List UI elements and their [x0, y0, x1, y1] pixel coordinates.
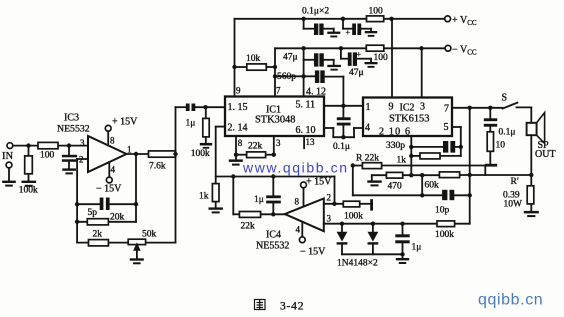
- svg-text:47μ: 47μ: [283, 53, 298, 63]
- svg-text:IC4: IC4: [266, 230, 281, 241]
- svg-text:− 15V: − 15V: [300, 247, 326, 258]
- svg-text:10p: 10p: [435, 206, 450, 216]
- svg-text:IC2: IC2: [400, 103, 415, 114]
- svg-text:2: 2: [327, 193, 332, 203]
- svg-text:100k: 100k: [191, 149, 210, 159]
- svg-text:STK6153: STK6153: [389, 114, 429, 125]
- svg-text:22k: 22k: [248, 142, 263, 152]
- svg-text:470: 470: [388, 182, 403, 192]
- svg-text:1. 15: 1. 15: [228, 102, 248, 113]
- svg-text:3: 3: [420, 102, 425, 113]
- svg-text:1N4148×2: 1N4148×2: [337, 259, 378, 269]
- svg-text:3-42: 3-42: [280, 301, 304, 313]
- svg-text:100: 100: [369, 7, 384, 17]
- svg-text:100k: 100k: [344, 212, 363, 222]
- svg-text:0.1μ: 0.1μ: [499, 128, 516, 138]
- svg-text:0.1μ: 0.1μ: [333, 142, 350, 152]
- svg-text:NE5532: NE5532: [256, 241, 289, 252]
- svg-text:3: 3: [276, 138, 281, 148]
- svg-text:0.1μ×2: 0.1μ×2: [302, 7, 329, 17]
- svg-text:qqibb.cn: qqibb.cn: [478, 292, 543, 309]
- svg-text:100: 100: [40, 151, 55, 161]
- svg-text:1μ: 1μ: [254, 195, 264, 205]
- svg-text:NE5532: NE5532: [57, 124, 90, 135]
- svg-text:10k: 10k: [246, 54, 261, 64]
- svg-text:4. 12: 4. 12: [306, 87, 326, 98]
- svg-text:60k: 60k: [425, 181, 440, 191]
- svg-text:47μ: 47μ: [349, 68, 364, 78]
- svg-text:2. 14: 2. 14: [228, 123, 248, 134]
- svg-text:1μ: 1μ: [412, 243, 422, 253]
- svg-text:1: 1: [127, 145, 132, 155]
- svg-text:8: 8: [238, 138, 243, 148]
- svg-text:− 15V: − 15V: [96, 184, 122, 195]
- svg-text:R 22k: R 22k: [356, 154, 379, 164]
- svg-text:IN: IN: [2, 151, 13, 162]
- svg-text:22k: 22k: [241, 222, 256, 232]
- svg-text:5p: 5p: [88, 208, 98, 218]
- svg-text:4: 4: [365, 123, 370, 134]
- svg-text:2 10 6: 2 10 6: [379, 127, 411, 138]
- svg-text:4: 4: [111, 165, 116, 175]
- svg-text:OUT: OUT: [535, 149, 556, 160]
- svg-text:STK3048: STK3048: [255, 115, 295, 126]
- svg-text:www.qqibb.cn: www.qqibb.cn: [242, 160, 349, 176]
- svg-text:3: 3: [80, 138, 85, 148]
- svg-text:+: +: [346, 28, 351, 37]
- svg-text:7: 7: [276, 86, 281, 96]
- svg-text:+ 15V: + 15V: [112, 117, 138, 128]
- svg-text:560p: 560p: [277, 72, 296, 82]
- svg-text:R′: R′: [511, 177, 519, 187]
- svg-text:4: 4: [296, 225, 301, 235]
- svg-text:7.6k: 7.6k: [149, 162, 166, 172]
- svg-text:S: S: [502, 93, 508, 104]
- svg-text:10W: 10W: [504, 200, 523, 210]
- svg-text:7: 7: [444, 104, 449, 115]
- svg-text:13: 13: [306, 137, 316, 147]
- svg-text:IC3: IC3: [64, 113, 79, 124]
- svg-text:8: 8: [295, 197, 300, 207]
- svg-text:20k: 20k: [110, 213, 125, 223]
- svg-text:5: 5: [444, 122, 449, 133]
- svg-text:1: 1: [366, 102, 371, 113]
- svg-text:50k: 50k: [142, 230, 157, 240]
- svg-text:+ 15V: + 15V: [306, 177, 332, 188]
- svg-text:100k: 100k: [435, 230, 454, 240]
- svg-text:100k: 100k: [19, 186, 38, 196]
- svg-text:6. 10: 6. 10: [296, 125, 316, 136]
- svg-text:9: 9: [389, 102, 394, 113]
- svg-text:2k: 2k: [93, 230, 103, 240]
- svg-text:2: 2: [79, 155, 84, 165]
- svg-text:+: +: [357, 50, 362, 59]
- svg-text:3: 3: [327, 214, 332, 224]
- svg-text:1μ: 1μ: [186, 119, 196, 129]
- svg-text:9: 9: [236, 86, 241, 96]
- svg-text:1k: 1k: [397, 156, 407, 166]
- svg-text:5. 11: 5. 11: [296, 100, 316, 111]
- svg-text:8: 8: [110, 136, 115, 146]
- svg-text:330p: 330p: [386, 141, 405, 151]
- svg-text:10: 10: [496, 141, 506, 151]
- svg-text:100: 100: [374, 53, 389, 63]
- svg-text:1k: 1k: [199, 192, 209, 202]
